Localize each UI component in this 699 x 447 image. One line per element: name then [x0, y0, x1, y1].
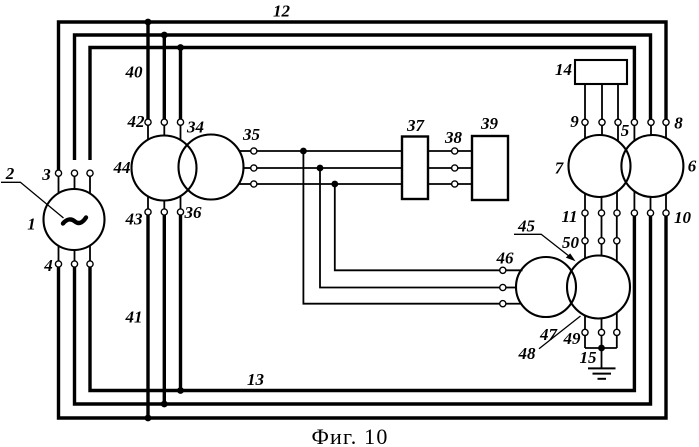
svg-text:44: 44	[113, 158, 131, 177]
svg-text:9: 9	[570, 112, 579, 131]
svg-text:49: 49	[563, 329, 582, 348]
svg-text:40: 40	[125, 63, 144, 82]
svg-text:48: 48	[518, 344, 537, 363]
svg-text:42: 42	[127, 112, 146, 131]
svg-text:5: 5	[621, 121, 630, 140]
svg-text:50: 50	[562, 233, 580, 252]
svg-text:3: 3	[41, 165, 51, 184]
svg-text:46: 46	[496, 249, 515, 268]
svg-text:39: 39	[480, 114, 499, 133]
svg-text:34: 34	[186, 118, 204, 137]
svg-text:45: 45	[517, 216, 536, 235]
svg-text:1: 1	[27, 215, 36, 234]
svg-text:4: 4	[43, 256, 53, 275]
svg-text:14: 14	[555, 60, 572, 79]
svg-text:47: 47	[539, 325, 559, 344]
svg-text:43: 43	[125, 210, 144, 229]
svg-text:41: 41	[125, 308, 143, 327]
svg-text:11: 11	[561, 207, 577, 226]
svg-text:10: 10	[674, 208, 692, 227]
svg-text:12: 12	[273, 2, 291, 21]
svg-text:6: 6	[688, 157, 697, 176]
svg-text:15: 15	[580, 348, 598, 367]
svg-text:36: 36	[184, 203, 203, 222]
svg-text:35: 35	[242, 125, 261, 144]
svg-text:2: 2	[5, 164, 15, 183]
svg-text:38: 38	[444, 128, 463, 147]
svg-text:Фиг. 10: Фиг. 10	[311, 424, 388, 447]
svg-text:13: 13	[247, 370, 265, 389]
svg-text:37: 37	[406, 116, 426, 135]
svg-text:8: 8	[674, 114, 683, 133]
